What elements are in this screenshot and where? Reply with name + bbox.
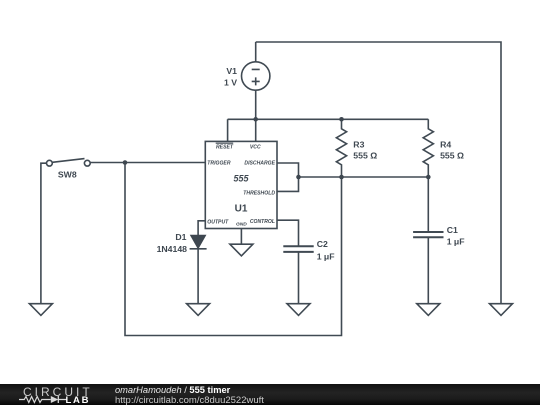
svg-text:555 Ω: 555 Ω [440, 150, 464, 160]
svg-text:GND: GND [236, 221, 247, 227]
svg-text:V1: V1 [226, 66, 237, 76]
svg-text:1N4148: 1N4148 [157, 244, 188, 254]
svg-text:1 V: 1 V [224, 78, 237, 88]
svg-text:R3: R3 [353, 140, 364, 150]
svg-text:C1: C1 [447, 225, 458, 235]
svg-text:U1: U1 [235, 203, 248, 214]
svg-text:SW8: SW8 [58, 170, 77, 180]
svg-text:DISCHARGE: DISCHARGE [244, 161, 275, 167]
svg-text:THRESHOLD: THRESHOLD [243, 190, 275, 196]
svg-text:1 μF: 1 μF [447, 236, 465, 246]
svg-text:VCC: VCC [250, 145, 261, 151]
svg-text:555: 555 [233, 174, 249, 184]
svg-text:C2: C2 [317, 239, 328, 249]
svg-text:D1: D1 [175, 232, 186, 242]
svg-text:RESET: RESET [216, 145, 234, 151]
svg-text:TRIGGER: TRIGGER [207, 161, 231, 167]
svg-text:OUTPUT: OUTPUT [207, 219, 229, 225]
svg-text:555 Ω: 555 Ω [353, 150, 377, 160]
svg-text:CONTROL: CONTROL [250, 219, 275, 225]
svg-text:1 μF: 1 μF [317, 251, 335, 261]
svg-text:R4: R4 [440, 140, 451, 150]
